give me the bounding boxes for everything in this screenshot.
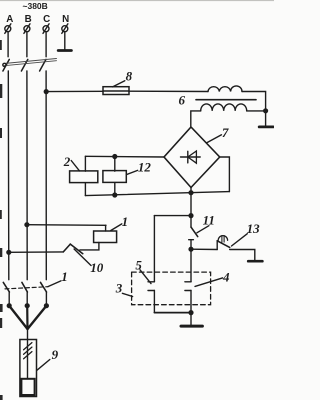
wire R12 bottom lead xyxy=(114,183,116,195)
wire QS2 A lower xyxy=(8,292,10,306)
wire phase B lower xyxy=(26,71,28,280)
leader 4 xyxy=(195,278,223,287)
svg-text:~380B: ~380B xyxy=(23,1,48,11)
leader 7 xyxy=(207,135,222,143)
wire star C converge xyxy=(28,306,47,329)
contact 13 blade xyxy=(217,241,230,248)
svg-text:6: 6 xyxy=(179,92,186,107)
switch QS2 pole A blade xyxy=(3,282,9,292)
wire to bottom ground xyxy=(190,313,192,325)
wire R2 bottom lead xyxy=(84,183,86,196)
contact 11 fixed tick xyxy=(189,239,194,241)
contact 10 blade left xyxy=(63,244,70,252)
contact 4 upper lead xyxy=(190,249,192,282)
contact 5 lower tick xyxy=(148,290,154,292)
node C tap junction xyxy=(44,90,48,94)
node bridge bottom junction xyxy=(189,191,193,195)
node DC bus junction xyxy=(189,214,193,218)
terminal A xyxy=(5,24,11,34)
dashed block 3 outline xyxy=(132,272,211,305)
wire to contact 13 xyxy=(191,248,217,250)
ground right of choke xyxy=(259,126,273,129)
wire contact 13 to ground xyxy=(230,250,255,260)
contact 4 upper tick xyxy=(185,281,191,283)
wire branch to left xyxy=(154,215,191,217)
wire star B converge xyxy=(26,306,28,329)
switch QS1 pole C blade xyxy=(40,59,46,71)
contact 5 upper tick xyxy=(148,281,154,283)
wire contacts common bar xyxy=(154,312,191,314)
leader 13 xyxy=(232,234,248,246)
node star C xyxy=(45,304,49,308)
svg-text:5: 5 xyxy=(135,257,142,272)
svg-text:13: 13 xyxy=(247,221,261,236)
contact 4 lower lead xyxy=(190,291,192,313)
leader 3 xyxy=(122,293,132,296)
contact 5 lower lead xyxy=(153,291,155,313)
svg-text:2: 2 xyxy=(63,154,71,169)
wire fuse to choke xyxy=(129,90,208,92)
leader 12 xyxy=(127,170,138,174)
switch QS2 pole B blade xyxy=(22,282,28,292)
leader 1 (switch QS2) xyxy=(48,281,61,287)
bridge diode cathode bar xyxy=(187,151,189,163)
node A tap junction xyxy=(7,250,11,254)
wire neutral N drop xyxy=(64,32,66,50)
svg-text:8: 8 xyxy=(126,68,133,83)
fuse F1 wire through xyxy=(103,90,129,92)
node star A xyxy=(7,304,11,308)
wire phase A upper xyxy=(7,32,9,57)
electrode 9 inner tip xyxy=(21,379,34,395)
electrode 9 hatch marks xyxy=(24,343,32,359)
svg-text:12: 12 xyxy=(138,160,152,175)
electrode 9 outer body xyxy=(20,340,37,397)
switch QS2 dashed link xyxy=(5,287,48,289)
wire contact 10 to phase A xyxy=(9,251,64,253)
wire QS2 B lower xyxy=(26,292,28,306)
node bottom rail junction xyxy=(113,193,117,197)
ground right of contact 13 xyxy=(248,260,262,263)
wire R2 top lead xyxy=(84,156,86,171)
node top rail junction xyxy=(113,155,117,159)
wire branch drop xyxy=(153,216,155,282)
wire to right ground xyxy=(265,111,267,126)
node star B xyxy=(25,304,29,308)
contact 4 lower tick xyxy=(185,290,191,292)
contact 13 left riser xyxy=(216,241,218,250)
wire top winding to right xyxy=(242,92,266,111)
contact 10 blade right xyxy=(70,244,83,254)
svg-text:10: 10 xyxy=(90,260,104,275)
terminal B xyxy=(24,24,30,34)
leader 5 xyxy=(140,270,151,284)
electrode 9 stem xyxy=(27,329,29,379)
switch QS1 link bar xyxy=(4,59,56,66)
wire QS2 C lower xyxy=(45,292,47,306)
switch QS1 pole B blade xyxy=(21,59,27,71)
switch QS1 pivot xyxy=(3,63,6,66)
wire B tap xyxy=(27,224,106,227)
leader 11 xyxy=(197,226,209,233)
wire bottom winding right lead xyxy=(247,110,266,112)
wire bridge bottom output xyxy=(190,188,192,216)
contact 13 actuator stem xyxy=(222,236,224,243)
bridge diode triangle xyxy=(188,151,197,163)
svg-text:B: B xyxy=(25,14,32,25)
switch QS2 pole C blade xyxy=(41,282,47,292)
svg-text:9: 9 xyxy=(52,347,59,362)
leader 10 xyxy=(74,249,91,266)
terminal C xyxy=(43,24,49,34)
wire phase C lower xyxy=(45,71,47,280)
inductor L1 bottom winding xyxy=(201,104,247,111)
svg-text:1: 1 xyxy=(61,269,67,284)
contact 11 lower lead xyxy=(190,240,192,250)
svg-text:1: 1 xyxy=(122,214,129,229)
node ground junction xyxy=(189,311,193,315)
svg-text:3: 3 xyxy=(115,281,123,296)
terminal N xyxy=(62,24,68,34)
ground below block 3 xyxy=(181,325,202,328)
wire bottom rail xyxy=(85,192,229,196)
wire phase C upper xyxy=(45,32,47,57)
leader 9 xyxy=(37,360,50,371)
contact 11 upper lead xyxy=(190,216,192,228)
wire top rail to bridge left xyxy=(85,155,164,158)
contact 11 blade xyxy=(191,227,198,237)
resistor R12 (12) body xyxy=(103,171,126,183)
svg-text:7: 7 xyxy=(222,125,229,140)
node choke output junction xyxy=(264,109,268,113)
wire bottom winding left lead xyxy=(191,111,201,127)
contact 13 actuator arc xyxy=(218,236,227,241)
wire R1 out xyxy=(80,243,99,250)
node contact 11 output junction xyxy=(189,247,193,251)
scan artifacts left edge xyxy=(0,40,3,400)
svg-text:4: 4 xyxy=(222,270,230,285)
switch QS1 pole A blade xyxy=(3,59,9,71)
leader 1 (resistor) xyxy=(111,224,122,231)
wire bridge right loop xyxy=(220,157,230,192)
inductor L1 core line xyxy=(196,99,256,101)
leader 8 xyxy=(113,81,125,87)
wire star A converge xyxy=(9,306,27,329)
wire into R1 xyxy=(105,225,107,231)
svg-text:A: A xyxy=(6,14,13,25)
fuse F1 body xyxy=(103,87,129,95)
wire phase A lower xyxy=(7,71,10,280)
wire R12 top lead xyxy=(114,157,116,172)
resistor R1 (1) body xyxy=(94,231,117,243)
wire phase B upper xyxy=(26,32,28,57)
wire C tap to fuse xyxy=(46,90,103,92)
bridge diode lead line xyxy=(181,156,201,158)
bridge rectifier U1 (7) diamond xyxy=(164,127,220,188)
resistor R2 (2) body xyxy=(70,171,98,183)
ground bar on N xyxy=(58,49,71,52)
inductor L1 (6) top winding xyxy=(208,86,242,92)
node B tap junction xyxy=(25,223,29,227)
leader 2 xyxy=(71,161,79,171)
